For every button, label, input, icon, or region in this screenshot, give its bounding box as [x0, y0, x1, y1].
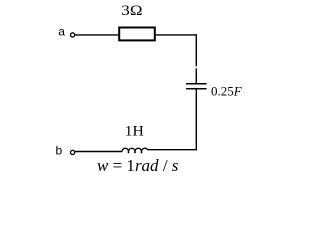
svg-text:0.25F: 0.25F [211, 84, 243, 99]
svg-text:1H: 1H [125, 123, 144, 139]
capacitor C 0.25F [186, 84, 207, 89]
inductor L 1H [122, 148, 148, 151]
wire resistor to top-right corner [156, 34, 197, 36]
terminal b [71, 150, 75, 154]
wire bottom-right corner to inductor [147, 149, 197, 151]
wire vertical upper segment [195, 34, 197, 83]
wire a to resistor [75, 34, 118, 36]
wire vertical lower segment [195, 89, 197, 149]
svg-text:w = 1rad / s: w = 1rad / s [97, 156, 179, 175]
wire inductor to b [75, 151, 122, 153]
svg-text:b: b [56, 143, 63, 157]
terminal a [71, 33, 75, 37]
inductor junction ticks [129, 151, 142, 153]
resistor R 3ohm [119, 28, 155, 41]
svg-text:a: a [58, 25, 65, 39]
svg-text:3Ω: 3Ω [121, 3, 142, 19]
